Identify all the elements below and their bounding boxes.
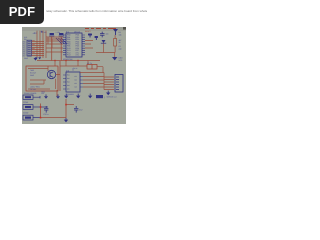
junction bottom 2 xyxy=(65,104,67,106)
ground arrow bottom xyxy=(64,118,68,122)
connector CON3 wire xyxy=(33,117,40,119)
svg-text:1k: 1k xyxy=(119,41,121,44)
regulator labels xyxy=(30,69,37,77)
ground pair below J1 xyxy=(35,57,42,59)
wire below D1 xyxy=(103,43,105,52)
svg-text:22p: 22p xyxy=(119,48,122,51)
IC U2 value label xyxy=(66,93,74,96)
svg-text:+5V: +5V xyxy=(33,32,38,35)
connector J2 pin bars xyxy=(116,77,119,90)
ground below J2 xyxy=(106,91,110,96)
svg-text:CON2: CON2 xyxy=(23,112,28,115)
toolbar dark notch xyxy=(123,27,126,30)
capacitor C12 label xyxy=(79,109,82,112)
junction bottom 1 xyxy=(40,106,42,118)
svg-text:GND: GND xyxy=(41,90,46,93)
svg-text:10k: 10k xyxy=(119,33,122,36)
label above grounds xyxy=(41,90,46,93)
label below J1 xyxy=(24,57,29,60)
servo label text xyxy=(107,96,117,99)
schematic canvas background xyxy=(22,31,126,124)
wire from C1 xyxy=(51,37,53,61)
node cross A xyxy=(41,31,43,33)
IC U1 right pins xyxy=(82,35,85,55)
relay K1 label xyxy=(87,62,93,65)
wire fan to connector xyxy=(80,73,114,90)
svg-text:10n: 10n xyxy=(106,33,109,36)
power arrow VCC xyxy=(113,29,118,35)
group labels bottom xyxy=(30,86,40,91)
capacitor C2 xyxy=(59,33,64,36)
svg-text:GND: GND xyxy=(30,74,35,77)
transistor Q5 xyxy=(47,70,55,78)
connector J1 pin name column xyxy=(23,40,26,57)
capacitor C1 label xyxy=(42,31,47,34)
net label top red xyxy=(85,30,91,33)
wire in group box top xyxy=(28,66,48,71)
document title text xyxy=(46,9,147,13)
capacitor C3 xyxy=(100,32,105,38)
connector CON1 fill xyxy=(25,96,31,98)
IC U1 value label xyxy=(63,58,73,61)
ground row 3 xyxy=(64,94,68,99)
connector CON2 body xyxy=(23,105,33,110)
connector J1 labels xyxy=(24,36,27,41)
svg-text:C9 1u: C9 1u xyxy=(43,113,48,116)
connector CON1 label xyxy=(23,101,28,104)
relay K1 xyxy=(87,65,97,70)
wire to relay xyxy=(60,66,103,73)
IC U2 right pins xyxy=(80,77,83,88)
connector CON2 wire xyxy=(33,106,48,108)
svg-text:XT2: XT2 xyxy=(76,54,79,57)
svg-text:RESET: RESET xyxy=(85,30,91,33)
connector J2 body xyxy=(115,75,123,93)
wire from C2 xyxy=(60,37,62,61)
toolbar strip xyxy=(22,27,126,31)
servo label xyxy=(104,96,105,99)
capacitor C3 value xyxy=(106,33,109,36)
transistor Q4 xyxy=(95,36,99,40)
wire bus verticals xyxy=(37,31,46,58)
PDF badge xyxy=(0,0,44,24)
wire rail drops xyxy=(55,61,88,67)
IC U1 body xyxy=(66,33,82,57)
wire right mid rail xyxy=(96,53,115,58)
capacitor C9 xyxy=(44,106,48,113)
node +5V label xyxy=(33,32,38,35)
connector CON2 fill xyxy=(25,106,31,108)
wire bottom left vertical xyxy=(41,104,67,119)
svg-text:PC3: PC3 xyxy=(67,54,71,57)
ground row 1 xyxy=(44,94,48,98)
diode D1 xyxy=(101,40,106,43)
IC U2 top note xyxy=(72,67,78,72)
IC U1 left pins xyxy=(63,35,66,55)
wire main rail xyxy=(37,60,100,62)
junction dots on rail xyxy=(54,60,78,61)
resistor labels right xyxy=(119,31,122,51)
power flag block xyxy=(96,95,103,98)
connector CON3 fill xyxy=(25,117,31,119)
svg-text:C12: C12 xyxy=(79,109,82,112)
wire bus to IC1 xyxy=(46,37,63,52)
group caption below xyxy=(24,92,45,95)
wire J1 nets xyxy=(32,42,45,56)
transistor Q3 xyxy=(88,34,92,38)
svg-text:CON1: CON1 xyxy=(23,101,28,104)
IC U2 left pins xyxy=(63,75,66,89)
ground left of rail xyxy=(34,58,38,61)
svg-text:CON6 POWER: CON6 POWER xyxy=(24,92,37,95)
svg-text:TIP120: TIP120 xyxy=(30,88,36,91)
connector J1 body xyxy=(27,40,32,56)
wires IC1 right xyxy=(85,41,93,48)
schematic image xyxy=(22,27,126,124)
connector CON1 body xyxy=(23,95,33,99)
ground right label xyxy=(119,56,124,61)
IC U1 label xyxy=(66,30,80,33)
ground row 4 xyxy=(76,94,80,99)
capacitor C2 label xyxy=(56,31,61,34)
IC U1 pin names xyxy=(67,34,79,57)
wire in group box mid xyxy=(28,75,60,90)
connector CON2 label xyxy=(23,112,28,115)
group box power section xyxy=(26,66,58,91)
net name labels red xyxy=(32,39,35,54)
ground row 5 xyxy=(88,94,92,99)
PDF badge text xyxy=(0,4,44,19)
IC U2 label xyxy=(66,70,69,73)
bus ripple diagonals xyxy=(56,38,67,44)
capacitor C12 xyxy=(74,106,78,113)
svg-text:V2: V2 xyxy=(72,69,74,72)
capacitor C1 xyxy=(49,33,54,36)
wire stubs on top strip xyxy=(85,28,116,30)
connector J1 pin bars xyxy=(28,42,31,56)
svg-text:SERVOS 1-8: SERVOS 1-8 xyxy=(107,96,117,99)
IC U2 body xyxy=(66,72,80,92)
svg-text:GND: GND xyxy=(24,57,29,60)
IC U2 pin names xyxy=(67,74,77,91)
connector CON1 wire xyxy=(33,96,40,98)
ground row 2 xyxy=(56,94,60,98)
capacitor C9 label xyxy=(43,113,48,116)
wire right of group xyxy=(57,61,60,96)
ground right GND xyxy=(112,57,117,60)
connector CON3 body xyxy=(23,115,33,120)
wire bottom mid vertical xyxy=(66,99,74,118)
resistor R1 xyxy=(114,35,117,53)
